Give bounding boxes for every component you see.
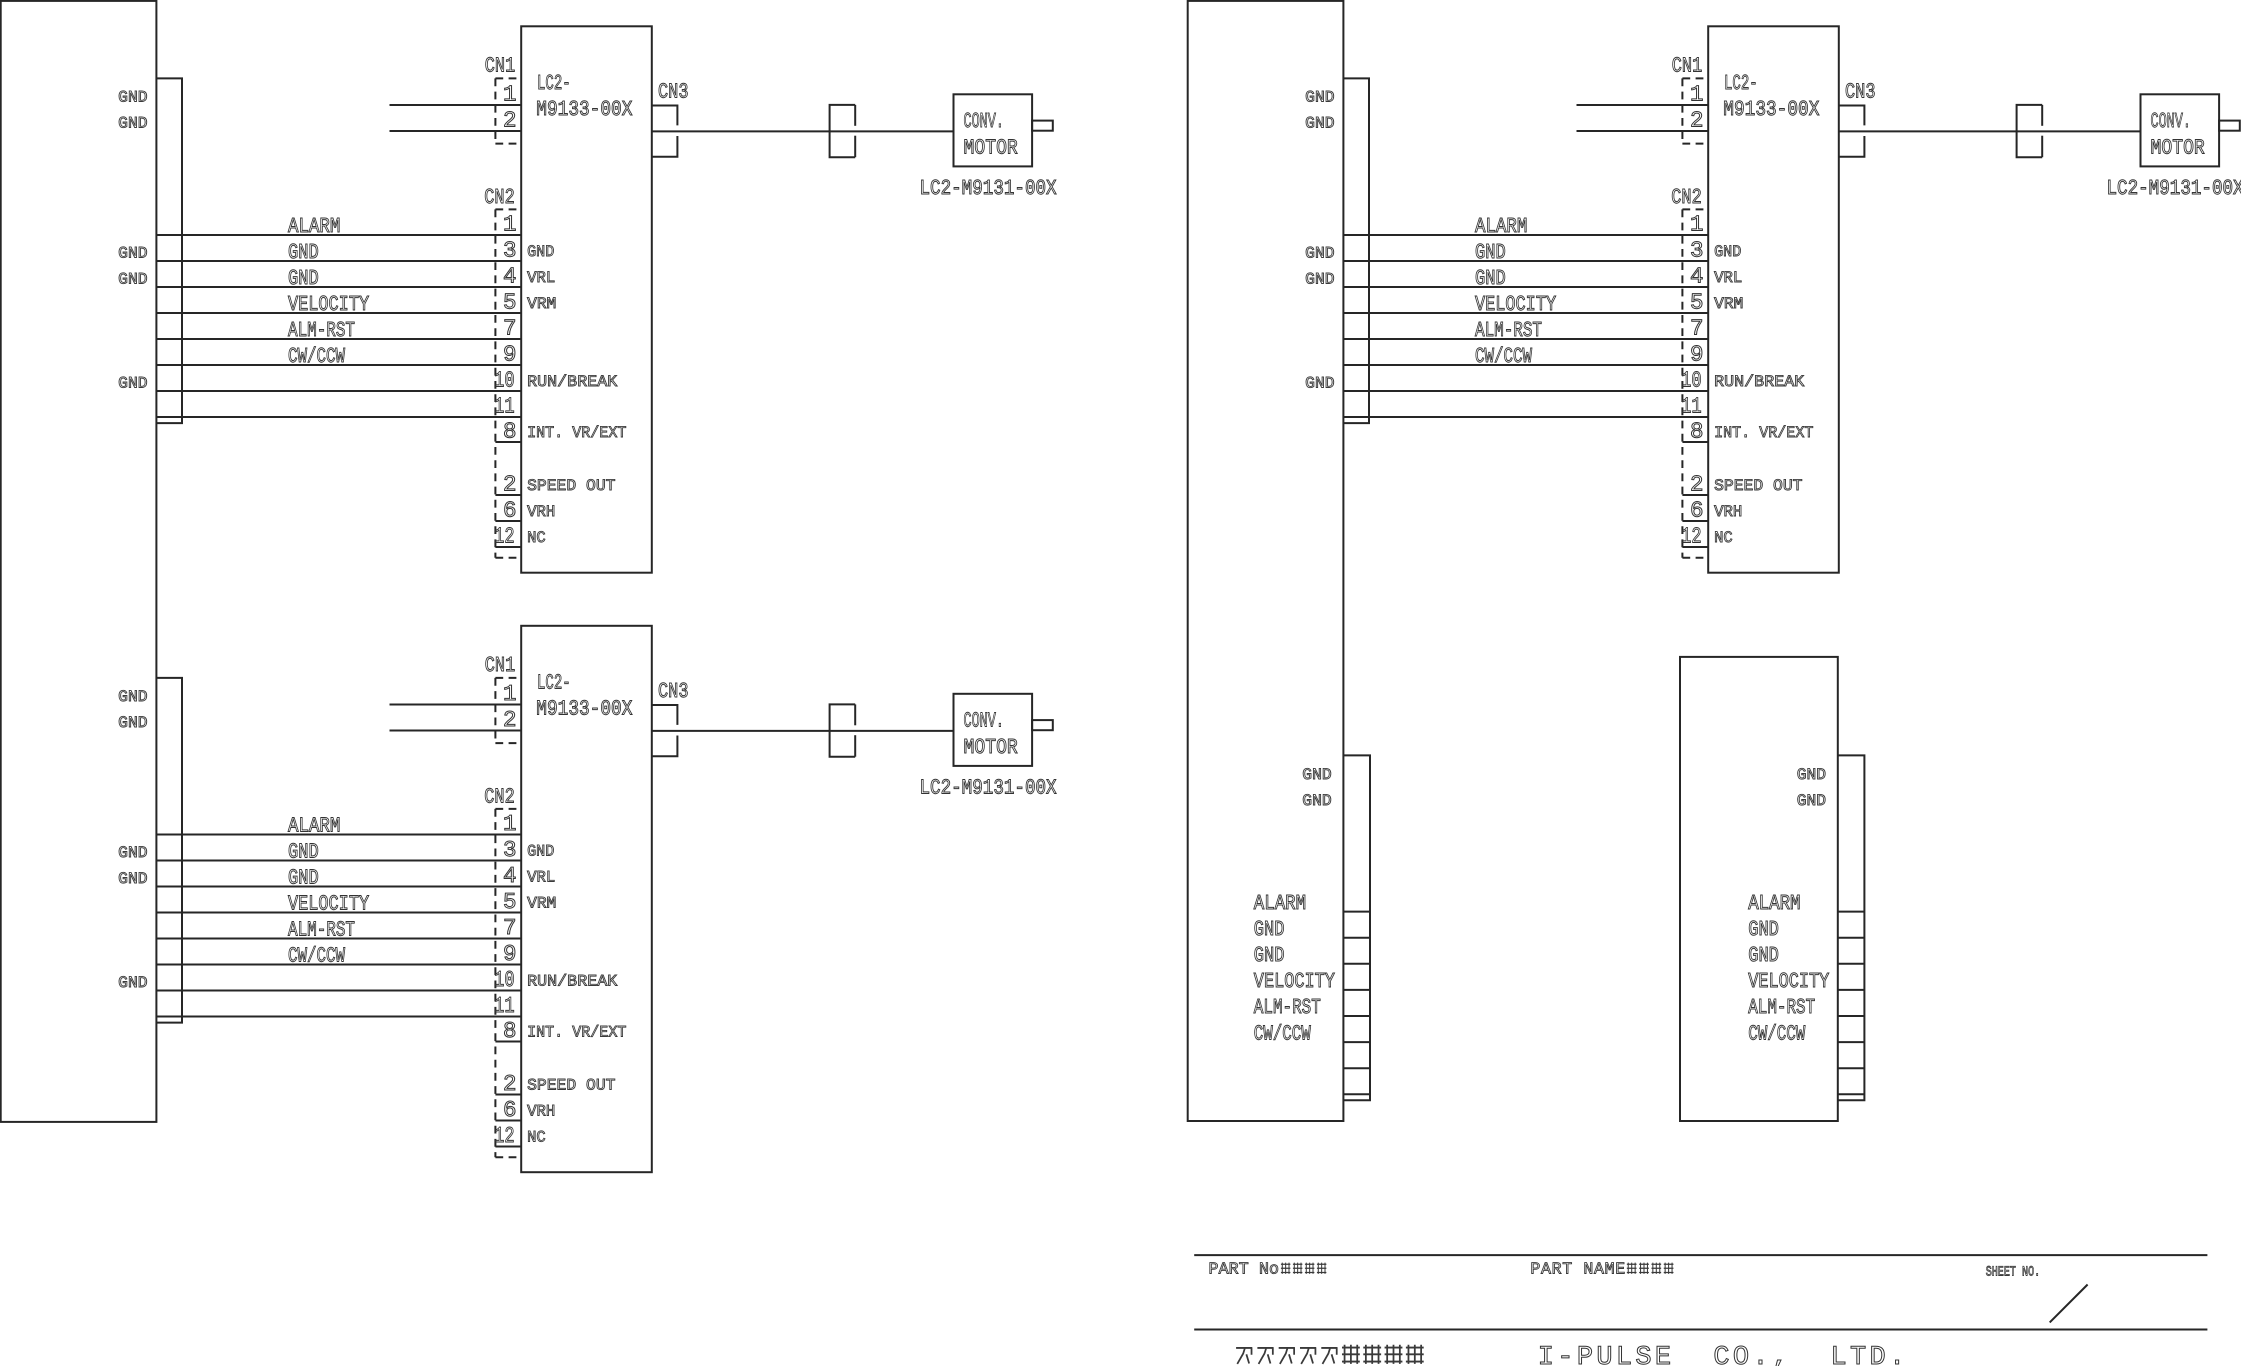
terminal block bottom-right A bbox=[1254, 755, 1370, 1100]
driver block bottom-left bbox=[118, 626, 1057, 1172]
driver block top-right bbox=[1305, 26, 2241, 572]
title block bottom rule bbox=[1194, 1329, 2207, 1331]
sheet no. slash bbox=[2050, 1285, 2088, 1323]
svg-text:SHEET NO.: SHEET NO. bbox=[1986, 1265, 2041, 1281]
driver block top-left bbox=[118, 26, 1057, 572]
svg-text:PART NAME: PART NAME bbox=[1530, 1260, 1625, 1279]
left I/O box bbox=[1, 1, 157, 1122]
company name kanji 株式会社 bbox=[1342, 1345, 1360, 1364]
svg-text:PART No: PART No bbox=[1209, 1260, 1280, 1279]
terminal block bottom-right B bbox=[1748, 755, 1864, 1100]
aux box bottom-right bbox=[1680, 657, 1838, 1121]
right I/O box bbox=[1188, 1, 1344, 1121]
svg-text:I-PULSE CO., LTD.: I-PULSE CO., LTD. bbox=[1538, 1343, 1905, 1366]
company name katakana アイパルス bbox=[1236, 1348, 1252, 1364]
title block top rule bbox=[1194, 1254, 2207, 1256]
